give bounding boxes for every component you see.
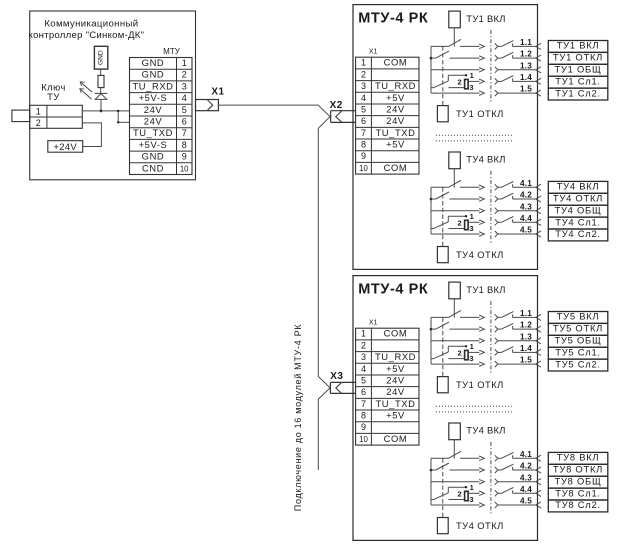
svg-text:GND: GND [142, 151, 165, 162]
svg-text:4.3: 4.3 [520, 202, 532, 211]
svg-text:ТУ8 Сл2.: ТУ8 Сл2. [555, 499, 601, 510]
svg-text:1: 1 [470, 212, 474, 221]
output box ТУ1 ОБЩ [548, 64, 608, 76]
wire X3 down continuation [318, 388, 330, 400]
svg-text:TU_TXD: TU_TXD [375, 398, 415, 409]
svg-text:X2: X2 [330, 100, 343, 111]
svg-text:TU_RXD: TU_RXD [375, 351, 416, 362]
connector X1 [196, 100, 219, 111]
svg-text:ТУ1 ВКЛ: ТУ1 ВКЛ [466, 284, 505, 295]
svg-text:24V: 24V [144, 104, 163, 115]
edge connector 1.2 [536, 55, 541, 61]
svg-text:10: 10 [359, 164, 368, 173]
wire 1.3 left [431, 340, 480, 342]
svg-text:4: 4 [361, 364, 366, 374]
coil ТУ1 ВКЛ [449, 11, 461, 28]
contact 1.1 right [495, 43, 498, 49]
module connector table X1 [356, 328, 419, 445]
wire GND to resistor [100, 69, 102, 75]
edge connector 1.3 [536, 338, 541, 344]
GND block [94, 46, 107, 69]
svg-text:ТУ1 ВКЛ: ТУ1 ВКЛ [557, 40, 600, 51]
svg-text:7: 7 [361, 399, 366, 409]
svg-text:24V: 24V [386, 374, 405, 385]
changeover contact 4.4 [448, 486, 466, 488]
svg-text:контроллер "Синком-ДК": контроллер "Синком-ДК" [29, 30, 145, 41]
wire 4.4 out [468, 221, 479, 223]
changeover contact 1.4 [448, 345, 466, 347]
svg-text:1.3: 1.3 [520, 332, 532, 341]
left bus wire ТУ4 [430, 187, 432, 234]
svg-text:COM: COM [384, 162, 408, 173]
wire terminal 2 to +24V [82, 123, 101, 147]
svg-text:6: 6 [361, 387, 366, 397]
svg-text:ТУ4 ОБЩ: ТУ4 ОБЩ [555, 204, 602, 215]
svg-text:2: 2 [458, 78, 462, 87]
svg-text:24V: 24V [386, 386, 405, 397]
coil ТУ1 ОТКЛ [437, 106, 448, 122]
contact 1.3 right [495, 67, 498, 73]
svg-text:6: 6 [182, 117, 187, 127]
wire 4.3 left [431, 481, 480, 483]
mechanical link dashed line ТУ4 [442, 458, 444, 517]
svg-text:10: 10 [359, 435, 368, 444]
svg-text:Подключение до 16 модулей МТУ-: Подключение до 16 модулей МТУ-4 РК [293, 324, 303, 511]
svg-text:1: 1 [361, 329, 366, 339]
output box ТУ5 ОБЩ [548, 335, 608, 347]
coil ТУ1 ОТКЛ [437, 377, 448, 393]
output box ТУ1 Сл2. [548, 88, 608, 100]
svg-text:ТУ4 ВКЛ: ТУ4 ВКЛ [466, 154, 505, 165]
edge connector 1.1 [536, 43, 541, 49]
output box ТУ8 Сл1. [548, 488, 608, 500]
module connector table X1 [356, 57, 419, 174]
wire X1 to X2 [218, 104, 318, 106]
controller box Синком-ДК [30, 11, 196, 180]
mechanical link dashed line ТУ4 [442, 187, 444, 246]
contact 4.1 right [495, 455, 498, 461]
wire 1.5 left [431, 363, 480, 365]
connector boundary dash-dot line [490, 301, 492, 374]
svg-text:1.4: 1.4 [520, 344, 532, 353]
contact 4.1 left [431, 186, 449, 188]
svg-text:ТУ: ТУ [47, 92, 60, 103]
wire 1.5 left [431, 92, 480, 94]
contact 1.1 left [431, 45, 449, 47]
svg-text:3: 3 [469, 224, 473, 233]
dotted separator [436, 134, 512, 136]
svg-text:1: 1 [470, 71, 474, 80]
svg-text:МТУ: МТУ [163, 47, 181, 56]
output box ТУ8 Сл2. [548, 500, 608, 512]
svg-text:4.2: 4.2 [520, 462, 532, 471]
changeover contact 1.4 [448, 74, 466, 76]
contact block 1.4 [465, 350, 469, 359]
svg-text:TU_RXD: TU_RXD [132, 80, 173, 91]
contact 4.2 left [430, 469, 433, 472]
connector X3 [330, 381, 355, 383]
contact 1.5 right [495, 90, 498, 96]
output box ТУ5 ВКЛ [548, 312, 608, 324]
coil ТУ4 ОТКЛ [437, 518, 448, 534]
output box ТУ4 Сл1. [548, 217, 608, 229]
edge connector 4.5 [536, 502, 541, 508]
contact 4.1 right [495, 184, 498, 190]
svg-text:+5V-S: +5V-S [139, 92, 168, 103]
edge connector 1.5 [536, 90, 541, 96]
bus wire down [317, 129, 319, 377]
svg-text:3: 3 [182, 81, 187, 91]
wire 1.3 left [431, 69, 480, 71]
output box ТУ8 ОБЩ [548, 476, 608, 488]
coil ТУ4 ВКЛ [449, 423, 461, 440]
contact 4.2 left [430, 198, 433, 201]
svg-text:1.3: 1.3 [520, 61, 532, 70]
coil ТУ1 ВКЛ [449, 282, 461, 299]
svg-text:ТУ1 ОБЩ: ТУ1 ОБЩ [555, 64, 602, 75]
contact 1.4 right [495, 349, 498, 355]
svg-text:ТУ8 ОТКЛ: ТУ8 ОТКЛ [553, 464, 603, 475]
svg-text:TU_RXD: TU_RXD [375, 80, 416, 91]
svg-text:ТУ8 ОБЩ: ТУ8 ОБЩ [555, 475, 602, 486]
svg-text:МТУ-4 РК: МТУ-4 РК [358, 11, 428, 27]
svg-text:X1: X1 [369, 49, 378, 56]
svg-text:1.1: 1.1 [520, 309, 532, 318]
dotted separator [436, 405, 512, 407]
svg-text:ТУ4 Сл2.: ТУ4 Сл2. [555, 228, 601, 239]
svg-text:24V: 24V [386, 103, 405, 114]
svg-text:1.2: 1.2 [520, 321, 532, 330]
svg-text:ТУ5 ОТКЛ: ТУ5 ОТКЛ [553, 323, 603, 334]
svg-text:ТУ4 Сл1.: ТУ4 Сл1. [555, 216, 601, 227]
svg-text:Коммуникационный: Коммуникационный [44, 19, 138, 30]
svg-text:ТУ1 ВКЛ: ТУ1 ВКЛ [466, 13, 505, 24]
wire 4.5 left [431, 233, 480, 235]
svg-text:5: 5 [361, 375, 366, 385]
edge connector 4.3 [536, 479, 541, 485]
changeover contact 4.4 [448, 215, 466, 217]
svg-text:1: 1 [36, 107, 41, 117]
svg-text:GND: GND [142, 57, 165, 68]
svg-text:X3: X3 [330, 371, 343, 382]
svg-text:6: 6 [361, 116, 366, 126]
svg-text:1.5: 1.5 [520, 85, 532, 94]
svg-text:7: 7 [361, 128, 366, 138]
svg-text:3: 3 [361, 352, 366, 362]
svg-text:X1: X1 [369, 320, 378, 327]
svg-text:ТУ4 ВКЛ: ТУ4 ВКЛ [466, 425, 505, 436]
contact 4.2 right [495, 196, 498, 202]
svg-text:COM: COM [384, 433, 408, 444]
svg-text:4: 4 [361, 93, 366, 103]
svg-text:4.3: 4.3 [520, 473, 532, 482]
svg-text:2: 2 [361, 69, 366, 79]
coil ТУ4 ВКЛ [449, 152, 461, 169]
svg-text:COM: COM [384, 328, 408, 339]
svg-text:+5V: +5V [386, 139, 405, 150]
svg-text:+5V: +5V [386, 92, 405, 103]
contact 4.4 right [495, 490, 498, 496]
svg-text:ТУ1 ОТКЛ: ТУ1 ОТКЛ [456, 108, 504, 119]
svg-text:3: 3 [469, 83, 473, 92]
contact 1.4 right [495, 78, 498, 84]
svg-text:GND: GND [142, 69, 165, 80]
connector boundary dash-dot line [490, 442, 492, 515]
svg-text:ТУ1 Сл1.: ТУ1 Сл1. [555, 75, 601, 86]
svg-text:2: 2 [36, 118, 41, 128]
output box ТУ5 ОТКЛ [548, 323, 608, 335]
svg-text:2: 2 [361, 340, 366, 350]
svg-text:+5V: +5V [386, 363, 405, 374]
svg-text:+5V-S: +5V-S [139, 139, 168, 150]
edge connector 1.1 [536, 314, 541, 320]
svg-text:ТУ4 ОТКЛ: ТУ4 ОТКЛ [553, 193, 603, 204]
svg-text:ТУ5 Сл1.: ТУ5 Сл1. [555, 346, 601, 357]
contact 4.2 right [495, 467, 498, 473]
svg-text:ТУ8 ВКЛ: ТУ8 ВКЛ [557, 452, 600, 463]
edge connector 4.2 [536, 467, 541, 473]
contact block 4.4 [465, 220, 469, 229]
wire 4.5 left [431, 504, 480, 506]
svg-text:1.4: 1.4 [520, 73, 532, 82]
contact 4.5 right [495, 231, 498, 237]
contact 4.3 right [495, 208, 498, 214]
mechanical link dashed line ТУ1 [442, 46, 444, 105]
wire coil ТУ1 ВКЛ to contact [453, 28, 455, 47]
svg-text:4.2: 4.2 [520, 191, 532, 200]
mechanical link dashed line ТУ1 [442, 317, 444, 376]
contact block 4.4 [465, 491, 469, 500]
contact 1.5 right [495, 361, 498, 367]
svg-text:4.4: 4.4 [520, 214, 532, 223]
LED VD1 [95, 92, 107, 94]
edge connector 1.3 [536, 67, 541, 73]
wire 4.4 out [468, 492, 479, 494]
output box ТУ8 ВКЛ [548, 452, 608, 464]
svg-text:ТУ1 ОТКЛ: ТУ1 ОТКЛ [553, 52, 603, 63]
output box ТУ5 Сл1. [548, 347, 608, 359]
module box МТУ-4 РК [353, 276, 538, 541]
output box ТУ5 Сл2. [548, 359, 608, 371]
LED light arrows [81, 83, 92, 92]
svg-text:+5V: +5V [386, 410, 405, 421]
+24V source box [48, 141, 83, 153]
contact 1.2 left [430, 328, 433, 331]
svg-text:ТУ5 Сл2.: ТУ5 Сл2. [555, 358, 601, 369]
svg-text:TU_TXD: TU_TXD [133, 127, 173, 138]
svg-text:ТУ8 Сл1.: ТУ8 Сл1. [555, 487, 601, 498]
left bus wire ТУ1 [430, 317, 432, 364]
svg-text:4.5: 4.5 [520, 497, 532, 506]
edge connector 4.1 [536, 455, 541, 461]
contact 1.1 left [431, 316, 449, 318]
wire coil ТУ4 ВКЛ to contact [453, 440, 455, 459]
output box ТУ4 ОБЩ [548, 205, 608, 217]
svg-text:9: 9 [361, 151, 366, 161]
wire terminal 1 to 24V row [82, 110, 129, 112]
svg-text:ТУ4 ОТКЛ: ТУ4 ОТКЛ [456, 520, 504, 531]
svg-text:2: 2 [458, 490, 462, 499]
svg-text:5: 5 [182, 105, 187, 115]
key terminal block [30, 105, 83, 128]
contact 4.4 right [495, 219, 498, 225]
edge connector 4.3 [536, 208, 541, 214]
svg-text:2: 2 [458, 349, 462, 358]
left bus wire ТУ4 [430, 458, 432, 505]
contact 4.1 left [431, 457, 449, 459]
contact 1.3 right [495, 338, 498, 344]
svg-text:9: 9 [361, 422, 366, 432]
svg-text:CND: CND [142, 162, 164, 173]
svg-text:24V: 24V [386, 115, 405, 126]
node junction dot [100, 110, 103, 113]
svg-text:1: 1 [182, 58, 187, 68]
svg-text:4.5: 4.5 [520, 226, 532, 235]
svg-text:3: 3 [469, 495, 473, 504]
svg-text:5: 5 [361, 104, 366, 114]
svg-text:МТУ-4 РК: МТУ-4 РК [358, 282, 428, 298]
svg-text:ТУ5 ВКЛ: ТУ5 ВКЛ [557, 311, 600, 322]
contact 1.1 right [495, 314, 498, 320]
svg-text:1: 1 [361, 58, 366, 68]
svg-text:1: 1 [470, 483, 474, 492]
wire LED to node [100, 99, 102, 111]
connector X2 [331, 110, 356, 112]
svg-text:3: 3 [361, 81, 366, 91]
edge connector 1.4 [536, 349, 541, 355]
output box ТУ4 Сл2. [548, 229, 608, 241]
svg-text:1.5: 1.5 [520, 356, 532, 365]
output box ТУ1 ОТКЛ [548, 52, 608, 64]
svg-text:10: 10 [180, 164, 189, 173]
output box ТУ8 ОТКЛ [548, 464, 608, 476]
edge connector 4.5 [536, 231, 541, 237]
svg-text:ТУ1 ОТКЛ: ТУ1 ОТКЛ [456, 379, 504, 390]
connector boundary dash-dot line [490, 30, 492, 103]
output box ТУ1 Сл1. [548, 76, 608, 88]
left bus wire ТУ1 [430, 46, 432, 93]
wire branch to row 6 [117, 111, 119, 122]
wire X2 down to bus [318, 116, 330, 128]
svg-text:ТУ4 ВКЛ: ТУ4 ВКЛ [557, 181, 600, 192]
svg-text:1.1: 1.1 [520, 38, 532, 47]
svg-text:4.4: 4.4 [520, 485, 532, 494]
output box ТУ4 ВКЛ [548, 181, 608, 193]
svg-text:GND: GND [98, 50, 105, 65]
svg-text:8: 8 [361, 411, 366, 421]
contact 4.5 right [495, 502, 498, 508]
edge connector 1.4 [536, 78, 541, 84]
svg-text:ТУ1 Сл2.: ТУ1 Сл2. [555, 87, 601, 98]
svg-text:4.1: 4.1 [520, 450, 532, 459]
svg-text:+24V: +24V [53, 142, 77, 153]
wire coil ТУ4 ВКЛ to contact [453, 169, 455, 188]
edge connector 4.4 [536, 219, 541, 225]
wire 1.4 out [468, 80, 479, 82]
resistor R1 [98, 75, 104, 87]
svg-text:4.1: 4.1 [520, 179, 532, 188]
contact 1.2 left [430, 57, 433, 60]
edge connector 4.4 [536, 490, 541, 496]
svg-text:COM: COM [384, 57, 408, 68]
svg-text:7: 7 [182, 128, 187, 138]
wire 1.4 out [468, 351, 479, 353]
wire bus to X3 [318, 376, 330, 388]
edge connector 1.2 [536, 326, 541, 332]
svg-text:TU_TXD: TU_TXD [375, 127, 415, 138]
edge connector 1.5 [536, 361, 541, 367]
contact 1.2 right [495, 55, 498, 61]
svg-text:24V: 24V [144, 116, 163, 127]
svg-text:1: 1 [470, 342, 474, 351]
output box ТУ4 ОТКЛ [548, 193, 608, 205]
key plug stub [12, 110, 30, 122]
edge connector 4.2 [536, 196, 541, 202]
module box МТУ-4 РК [353, 5, 538, 270]
output box ТУ1 ВКЛ [548, 41, 608, 53]
svg-text:2: 2 [182, 70, 187, 80]
svg-text:4: 4 [182, 93, 187, 103]
svg-text:ТУ4 ОТКЛ: ТУ4 ОТКЛ [456, 249, 504, 260]
contact 1.2 right [495, 326, 498, 332]
contact block 1.4 [465, 79, 469, 88]
connector boundary dash-dot line [490, 171, 492, 244]
МТУ connector table [130, 58, 193, 175]
svg-text:ТУ5 ОБЩ: ТУ5 ОБЩ [555, 335, 602, 346]
svg-text:8: 8 [361, 140, 366, 150]
coil ТУ4 ОТКЛ [437, 247, 448, 263]
wire resistor to LED [100, 88, 102, 94]
svg-text:1.2: 1.2 [520, 50, 532, 59]
contact 4.3 right [495, 479, 498, 485]
wire coil ТУ1 ВКЛ to contact [453, 299, 455, 318]
svg-text:3: 3 [469, 354, 473, 363]
svg-text:X1: X1 [211, 86, 224, 97]
edge connector 4.1 [536, 184, 541, 190]
svg-text:9: 9 [182, 152, 187, 162]
svg-text:2: 2 [458, 219, 462, 228]
svg-text:8: 8 [182, 140, 187, 150]
wire 4.3 left [431, 210, 480, 212]
